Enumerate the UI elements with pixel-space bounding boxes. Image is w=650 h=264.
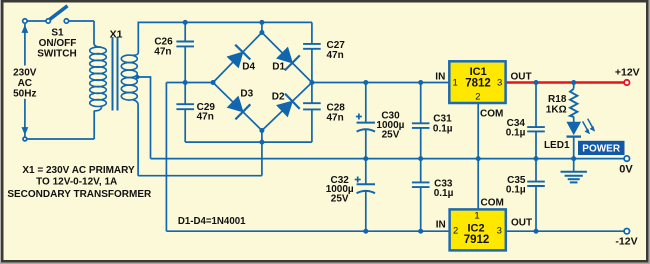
diode D3 bbox=[228, 97, 251, 120]
svg-text:25V: 25V bbox=[382, 129, 400, 140]
capacitor C34 0.1u bbox=[527, 127, 545, 131]
wire: bottom rail (-DC) to IC2 IN bbox=[166, 230, 449, 232]
svg-text:7812: 7812 bbox=[465, 78, 491, 90]
svg-text:50Hz: 50Hz bbox=[13, 88, 36, 99]
capacitor C32 1000u (electrolytic) bbox=[357, 184, 375, 193]
svg-text:X1 = 230V AC PRIMARY: X1 = 230V AC PRIMARY bbox=[22, 165, 135, 176]
capacitor C29 47n bbox=[176, 104, 194, 109]
label C32 1000u 25V bbox=[326, 175, 354, 204]
wire: primary top lead drop bbox=[93, 21, 95, 44]
wire: C30 column upper bbox=[365, 83, 367, 123]
wire: primary bottom lead rise bbox=[93, 111, 95, 140]
svg-text:47n: 47n bbox=[327, 113, 344, 124]
label S1 ON/OFF SWITCH bbox=[37, 28, 76, 60]
ground bbox=[561, 159, 587, 183]
transformer X1 primary coil bbox=[90, 44, 107, 111]
note X1 transformer bbox=[7, 165, 152, 200]
capacitor C30 1000u (electrolytic) bbox=[357, 123, 375, 132]
label C31 0.1u bbox=[433, 114, 453, 135]
transformer X1 secondary coil bbox=[121, 53, 139, 101]
wire: C32 column upper bbox=[365, 159, 367, 185]
label C26 47n bbox=[154, 36, 173, 57]
diode D1 bbox=[277, 48, 300, 71]
terminal -12V bbox=[624, 229, 629, 234]
diode D4 bbox=[228, 45, 251, 68]
C30 plus sign bbox=[356, 116, 362, 118]
wire: C35 column bbox=[535, 159, 537, 182]
svg-text:COM: COM bbox=[480, 109, 503, 120]
LED1 bbox=[567, 119, 595, 137]
center tap junction dot bbox=[135, 75, 139, 79]
svg-text:LED1: LED1 bbox=[544, 140, 570, 151]
source arrow down bbox=[22, 127, 29, 135]
capacitor C26 47n bbox=[176, 42, 194, 47]
svg-text:TO 12V-0-12V, 1A: TO 12V-0-12V, 1A bbox=[36, 177, 117, 188]
capacitor C31 0.1u bbox=[412, 123, 430, 128]
svg-text:D2: D2 bbox=[272, 92, 285, 103]
svg-text:0.1µ: 0.1µ bbox=[506, 128, 526, 139]
voltage regulator IC2 7912 bbox=[450, 209, 506, 250]
label C35 0.1u bbox=[506, 175, 526, 196]
svg-text:X1: X1 bbox=[110, 28, 123, 40]
svg-text:0V: 0V bbox=[619, 163, 633, 175]
svg-text:OUT: OUT bbox=[511, 71, 532, 82]
source arrow up bbox=[22, 25, 29, 33]
wire: switch row from source to switch bbox=[25, 20, 48, 22]
wire: C31 column bbox=[420, 83, 422, 124]
svg-text:230V: 230V bbox=[13, 68, 37, 79]
svg-text:0.1µ: 0.1µ bbox=[433, 123, 453, 134]
wire: IC1 COM to 0V rail bbox=[477, 103, 479, 159]
wire: C33 column bbox=[420, 159, 422, 183]
label C34 0.1u bbox=[506, 118, 526, 139]
wire: secondary bottom lead to AC2 route bbox=[133, 100, 138, 176]
wire: line-B down to bottom rail bbox=[165, 83, 167, 232]
svg-text:-12V: -12V bbox=[615, 235, 637, 247]
voltage regulator IC1 7812 bbox=[449, 61, 505, 103]
diode D2 bbox=[277, 94, 300, 117]
wire: bridge top stub bbox=[261, 22, 263, 32]
wire: C32 column lower bbox=[365, 191, 367, 231]
resistor R18 bbox=[570, 89, 577, 117]
capacitor C28 47n bbox=[303, 103, 321, 109]
svg-text:R18: R18 bbox=[548, 94, 567, 105]
wire: C34 column bbox=[535, 83, 537, 128]
svg-text:25V: 25V bbox=[331, 194, 349, 205]
svg-text:POWER: POWER bbox=[582, 143, 621, 154]
label R18 1K bbox=[546, 94, 567, 116]
terminal +12V bbox=[624, 80, 629, 85]
wire: left node to line-B bbox=[166, 82, 213, 84]
svg-text:1KΩ: 1KΩ bbox=[546, 104, 567, 115]
svg-text:47n: 47n bbox=[154, 46, 171, 57]
capacitor C33 0.1u bbox=[412, 182, 430, 187]
wire: C28 column bbox=[311, 83, 313, 104]
svg-text:D3: D3 bbox=[240, 89, 253, 100]
svg-text:0.1µ: 0.1µ bbox=[506, 184, 526, 195]
wire: top rail secondary to C27 column bbox=[138, 22, 312, 52]
wire: 0V mid rail bbox=[151, 158, 625, 160]
svg-text:COM: COM bbox=[481, 198, 504, 209]
svg-text:IC1: IC1 bbox=[470, 66, 487, 78]
svg-text:D4: D4 bbox=[242, 61, 255, 72]
wire: red +12V from IC1 OUT bbox=[506, 81, 624, 83]
transformer X1 core bbox=[113, 37, 118, 111]
svg-text:IN: IN bbox=[436, 219, 446, 230]
label 230V AC 50Hz bbox=[13, 68, 37, 100]
svg-text:3: 3 bbox=[497, 78, 502, 89]
wire: R18 to LED stub bbox=[573, 117, 575, 124]
svg-text:47n: 47n bbox=[197, 112, 214, 123]
wire: R18 top stub bbox=[573, 83, 575, 89]
C32 plus sign bbox=[355, 179, 361, 181]
wire: C29/C28 bottom wire bbox=[185, 141, 312, 143]
svg-text:3: 3 bbox=[497, 226, 502, 237]
svg-text:2: 2 bbox=[453, 226, 458, 237]
wire: center tap to 0V rail start bbox=[137, 77, 151, 159]
wire: primary bottom horizontal bbox=[27, 138, 94, 140]
wire: bridge bottom stub down bbox=[261, 131, 263, 176]
label C29 47n bbox=[197, 102, 216, 123]
svg-text:+12V: +12V bbox=[615, 66, 640, 78]
source bottom terminal bbox=[23, 137, 27, 141]
wire: 230V source vertical bbox=[24, 24, 26, 66]
terminal 0V bbox=[624, 156, 629, 161]
wire: C27 column bbox=[311, 22, 313, 44]
wire: IC2 COM to 0V rail bbox=[477, 159, 479, 210]
svg-text:SWITCH: SWITCH bbox=[37, 48, 76, 59]
wire: LED to 0V rail bbox=[573, 137, 575, 159]
svg-text:47n: 47n bbox=[327, 50, 344, 61]
capacitor C35 0.1u bbox=[527, 182, 545, 186]
wire: AC2 horizontal to bridge bottom bbox=[138, 175, 262, 177]
svg-text:2: 2 bbox=[475, 92, 480, 103]
LED1 emission arrows bbox=[583, 119, 595, 134]
label C30 1000u 25V bbox=[376, 111, 404, 141]
wire: IC2 OUT to -12V bbox=[506, 230, 625, 232]
svg-text:7912: 7912 bbox=[464, 234, 490, 246]
label C27 47n bbox=[327, 40, 346, 61]
svg-text:IC2: IC2 bbox=[467, 222, 484, 234]
switch S1 bbox=[23, 6, 69, 23]
wire: C29 column bbox=[184, 83, 186, 105]
svg-text:D1: D1 bbox=[272, 61, 285, 72]
svg-text:OUT: OUT bbox=[511, 218, 532, 229]
svg-text:D1-D4=1N4001: D1-D4=1N4001 bbox=[178, 216, 246, 227]
capacitor C27 47n bbox=[303, 44, 321, 49]
wire: C30 column lower bbox=[365, 130, 367, 159]
svg-text:SECONDARY TRANSFORMER: SECONDARY TRANSFORMER bbox=[7, 189, 152, 200]
label C28 47n bbox=[327, 103, 346, 124]
svg-text:1: 1 bbox=[474, 210, 479, 221]
wire: C26 column bbox=[184, 22, 186, 41]
label C33 0.1u bbox=[434, 179, 454, 200]
svg-text:IN: IN bbox=[435, 71, 445, 82]
svg-text:1: 1 bbox=[452, 78, 457, 89]
svg-text:0.1µ: 0.1µ bbox=[434, 188, 454, 199]
wire: switch to primary top lead bbox=[66, 20, 94, 22]
wire: bridge edges bbox=[213, 33, 312, 83]
wire: +DC rail right node to IC1 IN bbox=[312, 82, 449, 84]
POWER label box bbox=[578, 141, 625, 155]
